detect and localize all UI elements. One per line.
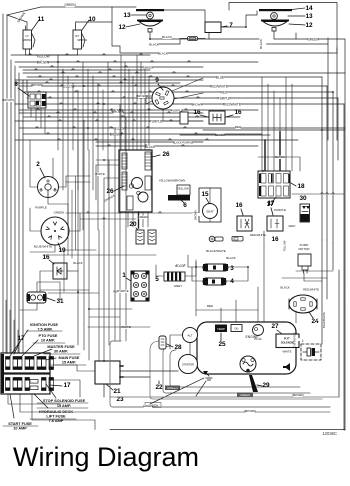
wire: bus y110 BROWN	[19, 109, 258, 111]
wire: feeder x27 down	[26, 80, 28, 92]
lamp bracket 14a bar	[136, 9, 164, 11]
svg-text:PTO FUSE: PTO FUSE	[39, 334, 58, 338]
wire: connector J7 left leads	[150, 39, 188, 45]
svg-text:GREY: GREY	[288, 224, 296, 228]
pump motor body	[298, 254, 311, 266]
fuse element upper 1	[6, 357, 11, 370]
wire: bus y55	[11, 54, 150, 56]
wire: right verticals from top	[336, 48, 338, 140]
switch S10 lever	[82, 33, 86, 47]
lamp bracket 14b bar	[259, 9, 292, 11]
wire: fuse block feed 2	[50, 380, 80, 397]
label BLACK left P24	[281, 286, 289, 289]
wire: bus y130 red	[203, 129, 345, 131]
svg-text:16: 16	[234, 109, 242, 116]
glow plug PLUG	[253, 325, 264, 336]
svg-text:PURPLE: PURPLE	[218, 96, 231, 100]
wire: hop row y194 right column	[292, 193, 344, 194]
svg-text:MASTER FUSE: MASTER FUSE	[47, 345, 75, 349]
label PURPLE at J1	[114, 290, 124, 293]
svg-text:BLACK: BLACK	[175, 264, 185, 268]
wire: sw2 right link	[66, 181, 90, 183]
relay block K18 body	[258, 171, 290, 198]
wire: bus y128 YELLOW	[19, 127, 345, 129]
wire: P9 diagonals to right	[172, 78, 203, 91]
svg-text:BROWN: BROWN	[292, 393, 303, 397]
svg-text:RED/WHITE: RED/WHITE	[210, 84, 228, 88]
lamp bulb 13b	[271, 13, 278, 20]
wire: module left leads	[96, 159, 119, 161]
lamp dome 12b	[263, 22, 287, 27]
lamp dome 12a	[139, 22, 161, 27]
fuse F6 body	[168, 195, 190, 201]
wire: bus y219	[80, 218, 136, 220]
label BROWN vertical at seat	[193, 213, 201, 216]
wire: bus y86 RED/WHITE	[19, 85, 327, 87]
wire: engine top feeders	[220, 308, 222, 323]
control module U26 body	[119, 150, 152, 212]
svg-text:MAIN FUSE: MAIN FUSE	[59, 356, 80, 360]
svg-text:15 AMP.: 15 AMP.	[57, 404, 71, 408]
svg-text:BLACK: BLACK	[145, 145, 155, 149]
svg-text:Wiring Diagram: Wiring Diagram	[13, 442, 199, 472]
fuse element upper 4	[42, 357, 47, 370]
wire: ground fan diagonals	[196, 381, 206, 396]
svg-text:GREEN: GREEN	[167, 386, 178, 390]
label BLACK/WHITE above D3	[207, 250, 226, 253]
label BLUE/WHITE vertical	[318, 318, 333, 321]
wire: right column verticals bottom	[321, 240, 323, 344]
wire: D16a leads	[40, 271, 53, 300]
wire: yellow drop	[57, 55, 59, 62]
svg-text:12: 12	[305, 22, 313, 29]
svg-text:BLACK: BLACK	[259, 39, 263, 49]
capacitor symbol	[307, 348, 311, 356]
fuse element lower 3	[42, 378, 47, 391]
label GREY at R5	[175, 285, 182, 288]
wire: harness inner 1	[163, 346, 310, 393]
svg-text:BLUE/WHITE: BLUE/WHITE	[322, 312, 326, 328]
label 11	[32, 20, 39, 30]
svg-text:RED/WHITE: RED/WHITE	[303, 288, 319, 292]
label PURPLE 2	[150, 120, 161, 124]
wire: left verticals to fuse block	[5, 300, 7, 353]
wire: bus y73	[23, 72, 345, 74]
label GREEN right	[308, 38, 317, 42]
relay K31 body	[27, 292, 46, 303]
label GREEN dark bottom	[237, 393, 253, 398]
wire: left edge vertical 4	[14, 66, 16, 355]
svg-text:14: 14	[305, 5, 313, 12]
wire: S10 bottom pin	[77, 49, 79, 55]
svg-text:BLACK: BLACK	[149, 43, 159, 47]
seat switch SW15	[203, 204, 218, 219]
wire: verticals to bottom 1	[77, 140, 79, 345]
svg-text:RED: RED	[221, 90, 228, 94]
wire: fuse block to battery feed	[50, 365, 95, 371]
svg-text:STARTER: STARTER	[182, 363, 194, 367]
svg-text:11: 11	[38, 16, 45, 23]
svg-text:RED: RED	[235, 125, 242, 129]
label WHITE mid	[122, 326, 131, 329]
label ORANGE diag	[105, 197, 115, 200]
wire: left edge vertical 2	[6, 15, 8, 353]
wire: lampA stem down to black bus	[150, 32, 259, 39]
fuse label stop solenoid	[46, 384, 56, 398]
svg-text:SOLENOID: SOLENOID	[281, 341, 295, 345]
wire: harness outline outer	[110, 341, 330, 407]
speaker symbol engine right	[283, 363, 290, 371]
svg-text:WHITE: WHITE	[282, 350, 291, 354]
lamp base 12a bar	[137, 20, 163, 22]
label BROWN at P9	[138, 95, 147, 98]
svg-text:LT: LT	[26, 34, 29, 38]
wire: module bottom leads	[127, 212, 129, 227]
connector P19 body	[41, 217, 69, 245]
connector P9 body	[152, 87, 174, 109]
label GREEN bus67	[144, 66, 153, 69]
wire: pump leads	[304, 273, 322, 281]
wire: bus y62 BROWN	[15, 61, 258, 63]
fuel solenoid body	[276, 334, 299, 348]
module pin strip e	[145, 176, 151, 190]
label GREY right of D17b	[289, 225, 295, 228]
label PURPLE lowmid	[118, 290, 128, 293]
module pin strip b	[122, 172, 127, 190]
wire: bus y83	[15, 82, 180, 84]
wire: bus y104 RED/WHITE	[15, 103, 344, 105]
wire: P19 left arc leads	[30, 208, 41, 231]
wire: bottom bus brown	[110, 396, 339, 398]
wire: red bus to engine	[196, 309, 258, 311]
svg-text:YELLOW: YELLOW	[112, 126, 125, 130]
module pin strip a	[122, 153, 127, 169]
label BLACK above module	[146, 146, 155, 149]
label WHITE engine	[283, 350, 291, 353]
connector J20b	[148, 230, 156, 244]
wire: bus y146	[96, 145, 258, 147]
svg-text:20: 20	[129, 221, 137, 228]
connector J8 body	[28, 92, 46, 108]
label PURPLE at P9	[172, 109, 182, 112]
label BLACK at D16a	[74, 262, 82, 265]
fuse label master	[34, 349, 52, 356]
wire: bottom-most bus	[110, 429, 345, 431]
svg-text:PLUG: PLUG	[254, 337, 262, 341]
component 28 body	[159, 336, 166, 349]
svg-text:SPRING: SPRING	[77, 38, 87, 42]
wire: top edge bus	[229, 3, 337, 49]
svg-text:RT: RT	[75, 34, 79, 38]
svg-text:BROWN: BROWN	[2, 98, 14, 102]
label YELLOW right	[178, 187, 188, 190]
svg-text:16: 16	[235, 202, 243, 209]
diode module D16a body	[53, 263, 67, 279]
engine block body	[197, 322, 296, 374]
svg-text:21: 21	[113, 388, 121, 395]
module relay coil b	[138, 192, 148, 202]
module relay coil a	[132, 178, 143, 189]
label RED/WHITE at pills	[251, 234, 266, 237]
wire: short feeders mid	[59, 282, 61, 300]
fuse block F17 lower body	[1, 374, 50, 394]
svg-text:PURPLE: PURPLE	[274, 208, 286, 212]
fuse label main	[46, 358, 56, 360]
svg-text:GREEN: GREEN	[240, 393, 251, 397]
label BROWN small	[193, 103, 201, 106]
wire: D3 leads	[188, 255, 203, 267]
connector J20a	[136, 230, 144, 244]
svg-text:26: 26	[162, 151, 170, 158]
wire: feeders right block	[261, 77, 263, 171]
wire: J8 bottom stubs	[30, 108, 32, 117]
label GREEN dark at battery	[165, 386, 180, 391]
label GREEN bottom mid	[145, 403, 161, 408]
svg-text:30: 30	[299, 195, 307, 202]
label RED small	[207, 305, 212, 308]
label BLACK left D3	[177, 264, 185, 267]
junction dots	[57, 61, 59, 63]
pump motor label	[301, 244, 308, 247]
module U7 body	[205, 22, 221, 33]
wire: switch 11 top lead to green bus	[7, 15, 27, 30]
svg-text:GREEN: GREEN	[143, 65, 154, 69]
svg-text:BLUE/WHITE: BLUE/WHITE	[34, 245, 52, 249]
battery BT21 body	[95, 361, 120, 384]
wire: left edge vertical 5	[18, 73, 20, 355]
svg-text:STOP SOLENOID FUSE: STOP SOLENOID FUSE	[43, 399, 86, 403]
svg-text:PURPLE: PURPLE	[117, 289, 128, 293]
fuse element upper 2	[18, 357, 23, 370]
svg-text:12: 12	[118, 24, 126, 31]
wire: top right corner down x328	[258, 38, 328, 44]
starter motor	[179, 355, 198, 374]
wire: bus y142 blackpurple	[96, 141, 203, 143]
wire: bus y113	[19, 112, 203, 114]
svg-text:13: 13	[123, 12, 131, 19]
svg-text:GREEN: GREEN	[307, 38, 319, 42]
svg-text:PURPLE: PURPLE	[35, 206, 47, 210]
svg-text:GREEN: GREEN	[54, 211, 65, 215]
wire: white wire to harness	[88, 326, 150, 328]
svg-text:BROWN: BROWN	[31, 83, 43, 87]
svg-text:RED/WHITE: RED/WHITE	[223, 102, 241, 106]
module pin strip d	[127, 196, 133, 210]
wire: bottom bus 2	[60, 411, 330, 413]
wire: fuse block bottom drops	[8, 394, 60, 404]
label BLACK under lampA	[163, 36, 172, 39]
svg-text:GREEN: GREEN	[138, 215, 149, 219]
module D17b body	[267, 216, 283, 231]
wire: S11 bottom pins	[25, 49, 27, 55]
capacitor dashed box	[301, 344, 321, 360]
label BLUE/WHITE at P19	[34, 245, 51, 248]
wire: bus y117	[23, 116, 240, 118]
wire: module bottom bold lead	[138, 212, 140, 228]
wire: bus y121	[15, 120, 203, 122]
svg-text:BROWN: BROWN	[244, 409, 255, 413]
label BROWN mid	[113, 110, 122, 114]
label BROWN bottom	[294, 394, 302, 397]
glow coil circle	[240, 356, 256, 372]
svg-text:C/W SWITCH: C/W SWITCH	[294, 332, 297, 347]
svg-text:BLACK: BLACK	[280, 286, 289, 290]
svg-text:28: 28	[174, 344, 182, 351]
switch S10 body	[73, 30, 82, 49]
connector pill b	[232, 237, 243, 242]
label GREEN at P19	[55, 211, 64, 214]
svg-text:29: 29	[262, 382, 270, 389]
svg-text:BLACK/WHITE: BLACK/WHITE	[206, 249, 226, 253]
key switch SW2 body	[38, 177, 59, 198]
label BLACK right D3	[227, 257, 235, 260]
wire: battery neg drop	[103, 384, 105, 397]
wire: battery to starter	[120, 370, 178, 372]
svg-text:17: 17	[63, 382, 71, 389]
label YELLOW	[37, 55, 48, 59]
wire: black nest 1	[112, 22, 337, 53]
svg-text:10 AMP: 10 AMP	[13, 427, 27, 431]
lamp base 12b bar	[261, 20, 289, 22]
svg-text:12036C: 12036C	[322, 431, 337, 436]
svg-text:5: 5	[155, 276, 159, 283]
label GREEN below module	[139, 216, 148, 219]
wire: left vertical x23	[22, 80, 24, 355]
wire: left edge green vertical	[2, 14, 4, 353]
lamp bulb 13a	[147, 12, 154, 19]
wire: feeder group x58-78	[57, 62, 59, 150]
svg-text:4: 4	[230, 278, 234, 285]
svg-text:7.6 AMP: 7.6 AMP	[49, 419, 64, 423]
svg-text:16: 16	[271, 236, 279, 243]
svg-text:BROWN: BROWN	[37, 60, 50, 64]
module pin strip c	[145, 152, 151, 170]
svg-text:18: 18	[297, 183, 305, 190]
svg-text:BLACK: BLACK	[226, 256, 236, 260]
svg-text:25: 25	[218, 341, 226, 348]
wire: bus y67 BROWN	[19, 66, 203, 68]
fuse element lower 1	[6, 378, 11, 391]
wire: module7 to right	[221, 11, 257, 27]
label BLACK 3	[159, 52, 168, 55]
switch S11 lever	[32, 33, 36, 47]
oil sender OIL	[231, 325, 242, 332]
svg-text:YELLOW: YELLOW	[283, 240, 287, 251]
label 10	[82, 20, 89, 30]
module K30 body	[300, 204, 310, 222]
svg-text:3: 3	[230, 265, 234, 272]
wire: bus y140	[15, 139, 298, 141]
wire: R5 leads	[185, 260, 196, 276]
fuse block left black bar	[2, 354, 5, 393]
seat switch SW15 enclosure	[199, 188, 221, 222]
wire: bus y213 to seat	[66, 212, 199, 214]
wire: bus y77 BLUE	[27, 76, 322, 78]
svg-text:BROWN: BROWN	[192, 103, 203, 107]
resistor R5 body	[164, 272, 185, 281]
wire: feeders right col long	[321, 77, 323, 240]
wire: SW2 leads	[30, 140, 38, 187]
label BROWN left J8	[4, 99, 13, 102]
wire: left edge vertical 3	[10, 60, 12, 355]
fuse block F17 upper body	[1, 353, 50, 373]
svg-text:17: 17	[266, 201, 274, 208]
wire: horizontals above P24	[296, 270, 333, 272]
svg-text:BROWN: BROWN	[194, 210, 198, 220]
svg-text:2: 2	[36, 161, 40, 168]
svg-text:19: 19	[58, 247, 66, 254]
wire: seat leads	[209, 188, 211, 204]
svg-text:YELLOW: YELLOW	[177, 187, 189, 191]
svg-text:13: 13	[305, 13, 313, 20]
label BLACK 2	[150, 43, 159, 46]
wire: bus y80	[15, 79, 203, 81]
svg-text:27: 27	[271, 323, 279, 330]
svg-text:BLACK: BLACK	[158, 52, 168, 56]
alternator ALT	[183, 328, 198, 343]
wire: module7 bottom leads	[208, 33, 210, 40]
svg-text:TEMP: TEMP	[217, 327, 225, 331]
wire: harness outline mid	[150, 341, 322, 399]
label BLACK at R5	[176, 265, 184, 268]
connector eye a	[209, 236, 215, 242]
wire: bold feeds into K18	[264, 140, 266, 173]
wire: relay31 leads	[37, 282, 60, 292]
label YELLOW vertical at cluster	[281, 244, 290, 247]
svg-text:OIL: OIL	[234, 327, 239, 331]
wire: green bus diagonal	[7, 7, 136, 15]
wire: alt leads	[170, 335, 182, 349]
diode D3 body	[203, 264, 228, 271]
lamp stem a	[148, 29, 152, 33]
svg-text:WHITE: WHITE	[95, 172, 105, 176]
label BROWN bottom2	[246, 410, 254, 413]
label PURPLE left of P19	[36, 206, 46, 209]
label C/W vertical	[289, 338, 303, 341]
label BLACK right	[258, 42, 267, 45]
svg-text:22: 22	[155, 384, 163, 391]
switch S11 body	[23, 30, 32, 49]
wire: bus y70	[23, 69, 150, 71]
svg-text:YELLOW/W/BROWN: YELLOW/W/BROWN	[159, 179, 186, 183]
svg-text:15: 15	[201, 191, 209, 198]
svg-text:15 AMP.: 15 AMP.	[62, 361, 76, 365]
wire: D4 leads	[192, 267, 203, 281]
temp sender TEMP	[215, 325, 227, 333]
wire: bus y135	[180, 134, 270, 136]
svg-text:BLACK PURPLE: BLACK PURPLE	[173, 141, 194, 145]
label BROWN diag at S11	[18, 16, 27, 19]
label RED/WHITE above P24	[304, 288, 319, 291]
label BROWN at J8	[33, 84, 42, 87]
svg-text:30 AMP.: 30 AMP.	[54, 350, 68, 354]
svg-text:SEAT: SEAT	[206, 210, 214, 214]
wire: bus y92 RED	[23, 91, 333, 93]
connector J1 body	[131, 271, 149, 301]
wire: yellow link S11-S10	[26, 54, 78, 56]
svg-text:MOTOR: MOTOR	[298, 247, 310, 251]
wire: P24 drop left	[295, 311, 297, 323]
ground symbol engine	[205, 372, 212, 380]
wire: bus y134 BROWN	[23, 133, 262, 135]
wire: harness inner 2	[170, 350, 300, 387]
svg-text:ALT: ALT	[187, 334, 192, 338]
wire: feeder group module top	[120, 55, 122, 150]
label YELLOW/W/BROWN	[161, 179, 184, 182]
svg-text:9: 9	[155, 77, 159, 84]
connector J7	[188, 37, 198, 41]
fuse element lower 2	[18, 378, 23, 391]
